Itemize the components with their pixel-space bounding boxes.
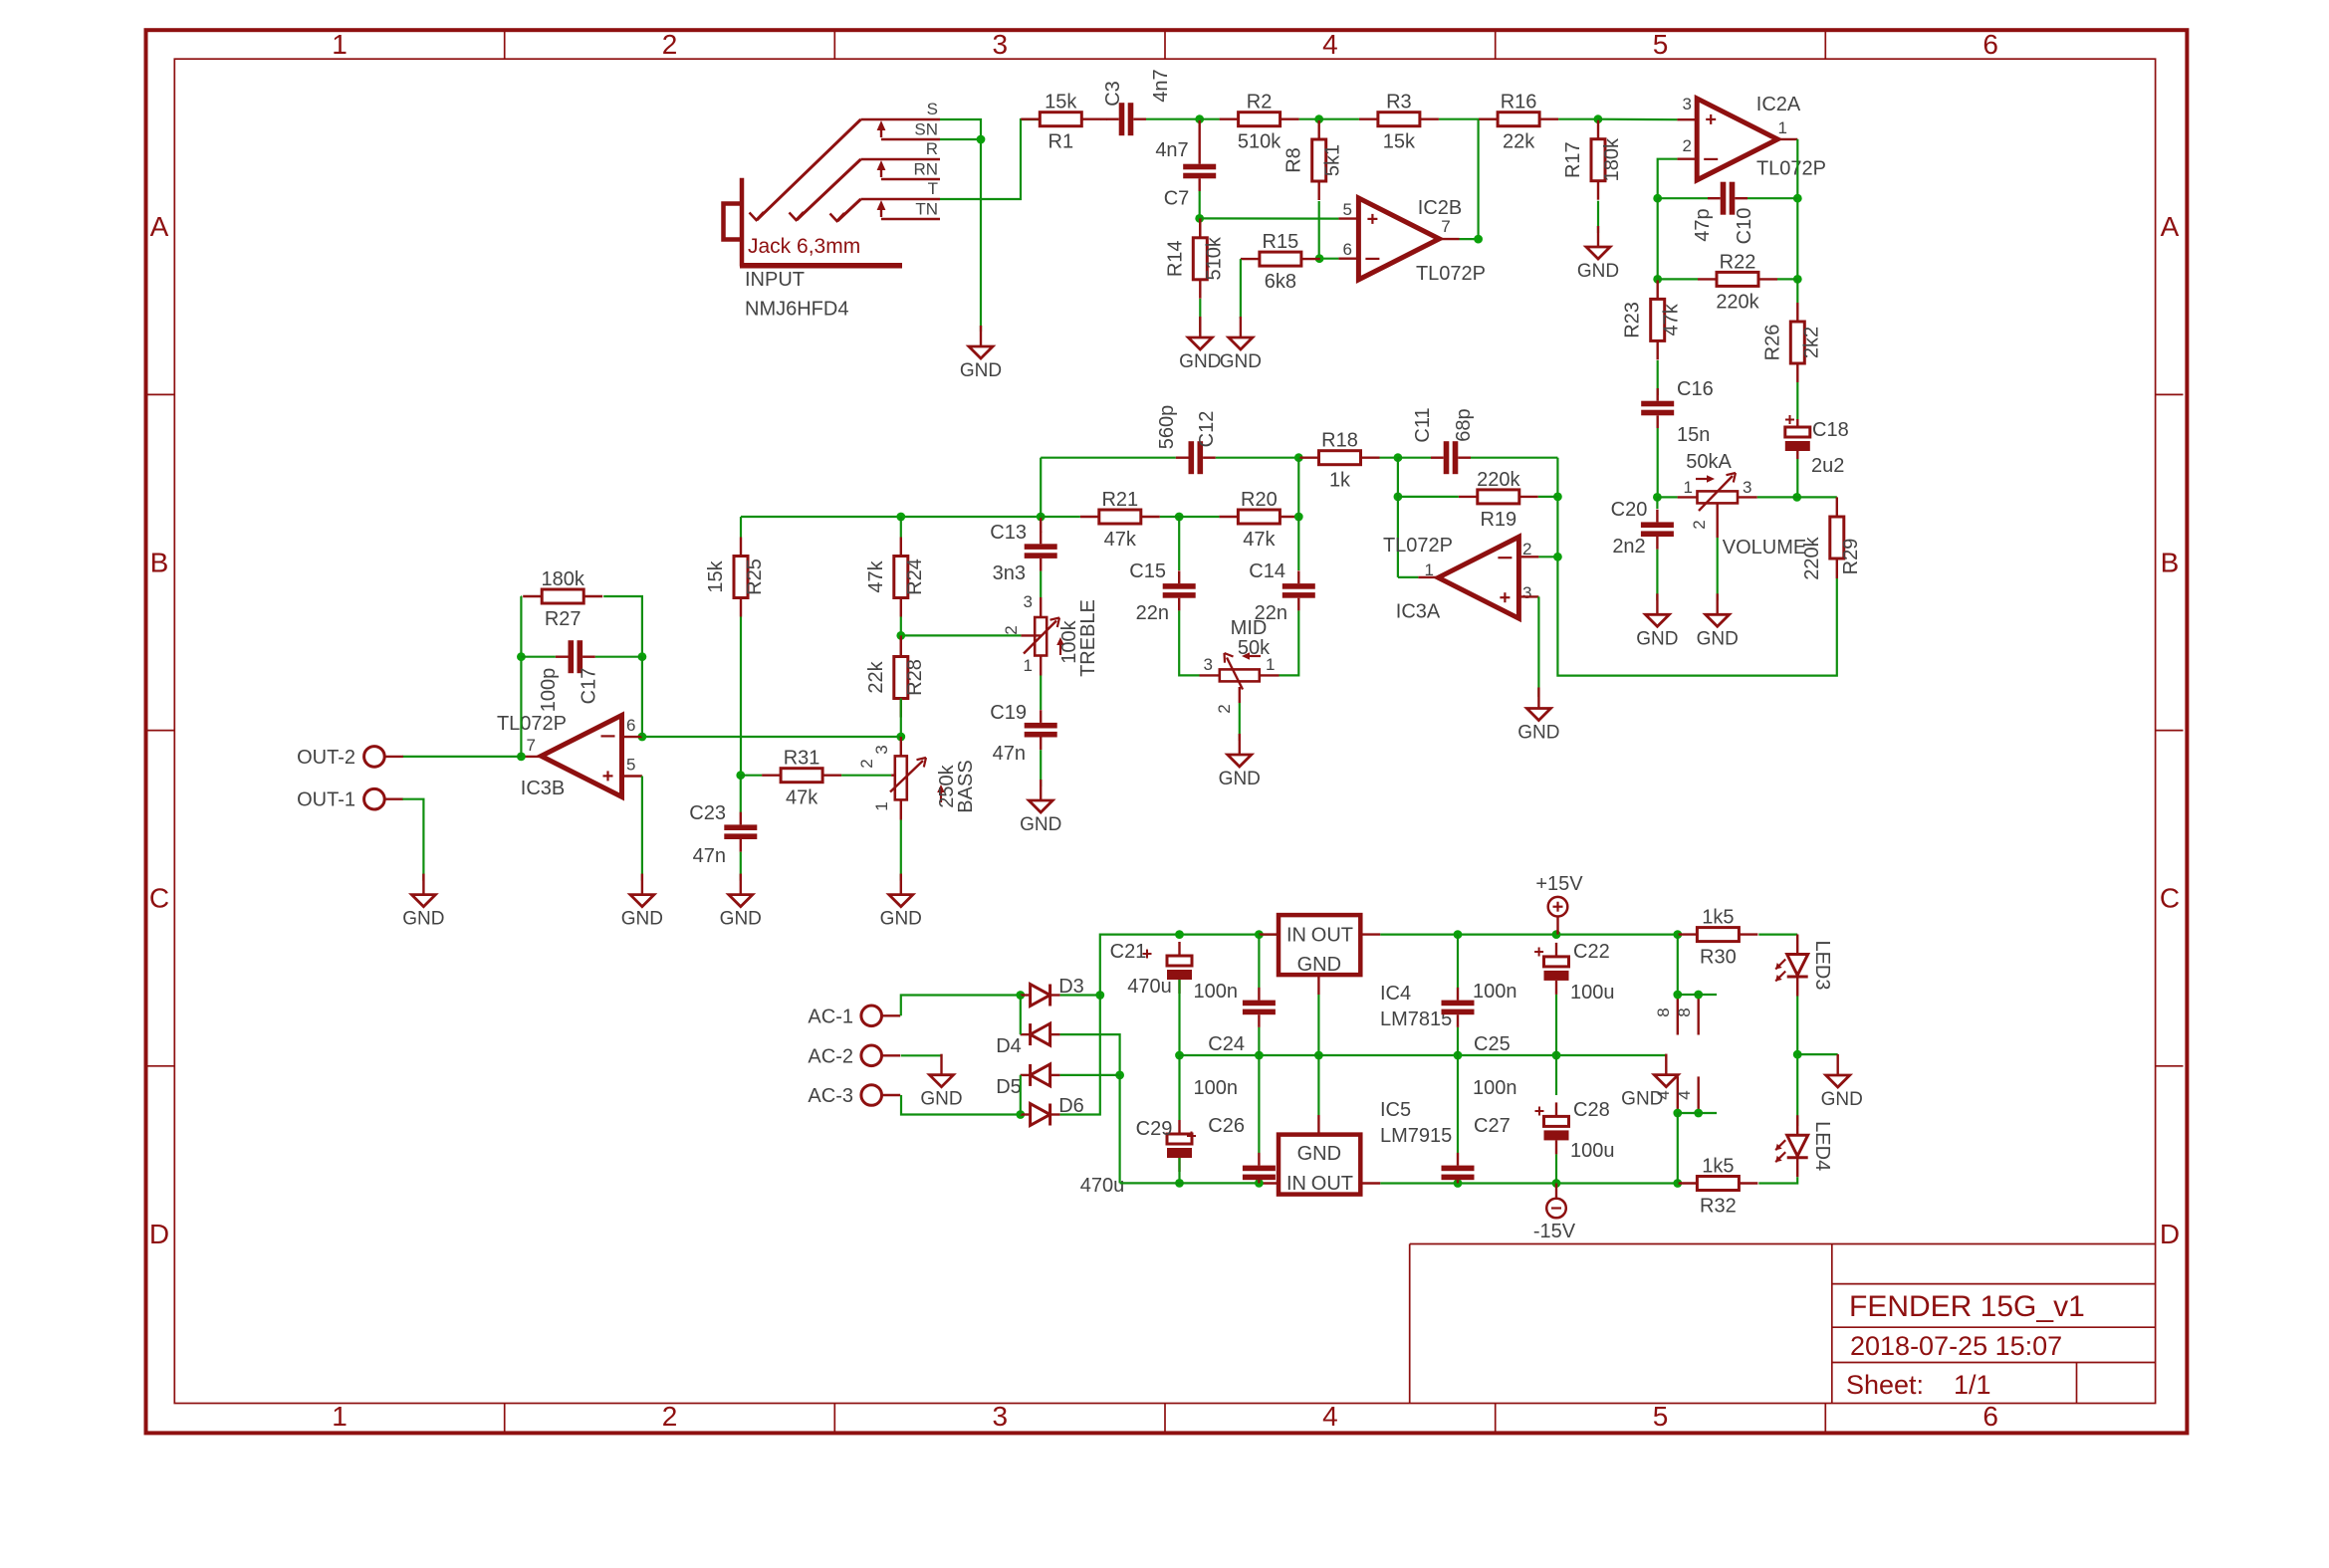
wire — [1200, 217, 1339, 219]
junction — [896, 733, 905, 742]
svg-text:C26: C26 — [1208, 1115, 1245, 1137]
svg-text:1k5: 1k5 — [1702, 1156, 1734, 1178]
junction — [1793, 275, 1802, 284]
ground — [621, 874, 663, 930]
junction — [1673, 1109, 1682, 1118]
wire — [1678, 994, 1717, 996]
svg-text:15k: 15k — [1045, 92, 1077, 113]
junction — [896, 631, 905, 640]
svg-text:2018-07-25 15:07: 2018-07-25 15:07 — [1850, 1331, 2062, 1361]
svg-text:47k: 47k — [1661, 303, 1683, 336]
wire — [1796, 997, 1798, 1127]
diode D3 — [1021, 976, 1084, 1007]
capacitor C3 — [1102, 69, 1172, 135]
voltage regulator IC4 LM7815 — [1259, 915, 1452, 1030]
svg-text:R18: R18 — [1321, 430, 1358, 452]
svg-text:MID: MID — [1231, 617, 1268, 639]
ground — [720, 874, 762, 930]
svg-text:C17: C17 — [579, 668, 600, 705]
svg-text:2: 2 — [1002, 625, 1021, 634]
wire — [1299, 118, 1319, 120]
wire — [1060, 1034, 1120, 1075]
svg-text:47k: 47k — [786, 787, 818, 809]
resistor R26 — [1761, 303, 1822, 382]
ground — [1577, 226, 1619, 282]
svg-text:IC3A: IC3A — [1396, 601, 1441, 623]
junction — [1315, 254, 1324, 263]
svg-text:R: R — [926, 139, 938, 158]
resistor R24 — [865, 538, 926, 617]
op-amp IC3A — [1383, 535, 1532, 623]
svg-text:TN: TN — [915, 200, 938, 219]
svg-text:R24: R24 — [904, 559, 926, 595]
svg-text:B: B — [150, 547, 169, 577]
svg-text:LM7815: LM7815 — [1380, 1008, 1452, 1030]
junction — [1474, 235, 1483, 244]
svg-text:IN: IN — [1286, 925, 1306, 947]
wire — [1398, 496, 1459, 498]
capacitor C28 — [1544, 1099, 1615, 1162]
wire — [1120, 1182, 1260, 1184]
svg-text:22k: 22k — [865, 660, 887, 693]
junction S/SN — [977, 135, 986, 144]
capacitor C22 — [1544, 941, 1615, 1004]
svg-text:R21: R21 — [1101, 489, 1138, 511]
resistor R16 — [1479, 92, 1558, 153]
wire — [1180, 1054, 1667, 1056]
junction — [1552, 930, 1561, 939]
svg-text:C27: C27 — [1474, 1115, 1511, 1137]
wire — [1199, 191, 1201, 218]
junction — [1653, 493, 1662, 502]
wire — [1178, 1158, 1180, 1183]
svg-text:3: 3 — [1204, 655, 1213, 674]
wire — [1319, 118, 1359, 120]
svg-text:R20: R20 — [1241, 489, 1278, 511]
svg-text:2: 2 — [1690, 520, 1709, 529]
svg-text:3: 3 — [1743, 478, 1751, 497]
capacitor C7 — [1183, 151, 1216, 191]
svg-text:4: 4 — [1675, 1090, 1694, 1099]
capacitor C26 — [1243, 1153, 1276, 1184]
resistor R15 — [1241, 231, 1320, 293]
jumper pins 4 — [1654, 1076, 1699, 1113]
voltage regulator IC5 LM7915 — [1259, 1099, 1452, 1195]
svg-text:1: 1 — [332, 1401, 348, 1432]
junction — [1694, 991, 1703, 1000]
svg-text:3: 3 — [872, 745, 891, 754]
junction — [517, 753, 526, 762]
svg-text:470u: 470u — [1080, 1175, 1125, 1197]
svg-text:TL072P: TL072P — [1383, 535, 1453, 557]
svg-text:180k: 180k — [1601, 137, 1623, 181]
junction — [1195, 114, 1204, 123]
resistor R3 — [1359, 92, 1439, 153]
wire — [1041, 457, 1176, 459]
wire — [1040, 458, 1042, 517]
svg-text:1k: 1k — [1329, 470, 1351, 492]
svg-text:C18: C18 — [1812, 419, 1849, 441]
junction — [1294, 453, 1303, 462]
wire — [1747, 197, 1797, 199]
svg-text:1: 1 — [332, 29, 348, 60]
capacitor C29 — [1080, 1118, 1192, 1197]
wire — [1240, 259, 1242, 319]
wire — [740, 617, 742, 776]
wire — [1658, 159, 1678, 199]
op-amp IC3B — [497, 713, 636, 799]
resistor R19 — [1459, 469, 1538, 531]
svg-text:R28: R28 — [904, 659, 926, 696]
wire — [900, 699, 902, 738]
svg-text:C16: C16 — [1677, 378, 1714, 400]
wire — [1796, 933, 1798, 935]
svg-text:D4: D4 — [996, 1035, 1022, 1057]
svg-text:LED3: LED3 — [1811, 940, 1833, 990]
ground — [1179, 317, 1221, 372]
wire — [1179, 610, 1199, 675]
svg-text:TL072P: TL072P — [1416, 263, 1486, 285]
svg-text:3: 3 — [1683, 95, 1692, 113]
diode D5 — [996, 1064, 1059, 1098]
wire — [940, 119, 1040, 199]
svg-text:4: 4 — [1322, 29, 1338, 60]
svg-text:2n2: 2n2 — [1612, 536, 1645, 558]
junction — [1454, 930, 1463, 939]
resistor R20 — [1219, 489, 1298, 551]
supply -15V — [1533, 1184, 1576, 1243]
svg-text:22n: 22n — [1136, 602, 1169, 624]
svg-text:C: C — [149, 883, 169, 914]
wire — [940, 119, 981, 332]
capacitor C27 — [1442, 1153, 1475, 1184]
wire — [1020, 996, 1022, 1035]
svg-text:C13: C13 — [990, 522, 1027, 544]
svg-text:100p: 100p — [538, 668, 560, 713]
svg-text:1: 1 — [872, 801, 891, 810]
junction — [1673, 1179, 1682, 1188]
junction — [1673, 930, 1682, 939]
svg-text:100n: 100n — [1473, 981, 1517, 1003]
wire — [1677, 935, 1679, 995]
junction — [1314, 1051, 1323, 1060]
svg-text:R27: R27 — [545, 608, 582, 630]
wire — [1457, 935, 1459, 988]
resistor R29 — [1801, 497, 1862, 579]
svg-text:IC3B: IC3B — [521, 778, 565, 799]
junction — [1553, 553, 1562, 561]
wire — [1717, 538, 1719, 600]
wire — [1557, 458, 1836, 676]
svg-text:D: D — [2160, 1219, 2180, 1249]
wire — [1657, 496, 1677, 498]
wire — [1657, 198, 1659, 279]
svg-text:R25: R25 — [744, 559, 766, 595]
svg-text:GND: GND — [1219, 769, 1261, 789]
junction — [1792, 493, 1801, 502]
svg-text:S: S — [927, 100, 938, 118]
diode D6 — [1021, 1095, 1084, 1126]
potentiometer TREBLE 100k — [1002, 592, 1099, 677]
wire — [1179, 516, 1219, 518]
frame labels — [149, 29, 2180, 1432]
svg-text:47n: 47n — [693, 845, 726, 867]
ground — [920, 1054, 962, 1110]
wire — [641, 657, 643, 737]
junction — [1552, 1179, 1561, 1188]
wire — [1538, 496, 1558, 498]
wire — [740, 776, 742, 812]
svg-text:7: 7 — [527, 736, 536, 755]
resistor R8 — [1283, 120, 1344, 200]
wire — [740, 517, 742, 538]
svg-text:7: 7 — [1441, 217, 1450, 236]
svg-text:47k: 47k — [1243, 529, 1276, 551]
junction — [638, 733, 647, 742]
junction — [1553, 493, 1562, 502]
wire — [841, 775, 891, 777]
junction — [1653, 275, 1662, 284]
resistor R27 — [523, 568, 602, 630]
resistor R32 — [1678, 1156, 1757, 1218]
svg-text:2: 2 — [1215, 704, 1234, 713]
wire — [1656, 497, 1658, 509]
svg-text:22k: 22k — [1503, 131, 1535, 153]
wire — [1040, 571, 1042, 597]
svg-text:R16: R16 — [1501, 92, 1537, 113]
potentiometer VOLUME 50kA — [1678, 451, 1807, 559]
wire — [1471, 457, 1557, 459]
svg-text:SN: SN — [914, 120, 938, 139]
resistor R28 — [865, 638, 926, 718]
resistor R22 — [1698, 251, 1777, 313]
svg-text:R17: R17 — [1562, 141, 1584, 178]
wire — [1439, 118, 1518, 120]
svg-text:220k: 220k — [1801, 536, 1823, 579]
wire — [402, 756, 521, 758]
svg-text:68p: 68p — [1453, 408, 1475, 441]
junction — [1454, 1179, 1463, 1188]
svg-text:4: 4 — [1654, 1090, 1673, 1099]
svg-text:GND: GND — [621, 909, 663, 930]
svg-text:A: A — [150, 211, 169, 242]
svg-text:8: 8 — [1675, 1008, 1694, 1016]
svg-text:AC-3: AC-3 — [808, 1085, 853, 1107]
svg-text:GND: GND — [1517, 723, 1559, 744]
svg-text:5: 5 — [626, 756, 635, 775]
svg-text:IC2B: IC2B — [1418, 197, 1462, 219]
svg-text:FENDER 15G_v1: FENDER 15G_v1 — [1849, 1290, 2085, 1323]
capacitor C16 — [1641, 388, 1674, 428]
capacitor C21 — [1110, 941, 1192, 998]
frame ticks — [148, 32, 2184, 1432]
junction — [1195, 214, 1204, 223]
wire — [901, 1095, 1021, 1115]
connector OUT-2 — [297, 747, 403, 769]
svg-text:C22: C22 — [1573, 941, 1610, 963]
svg-text:-15V: -15V — [1533, 1221, 1576, 1242]
junction — [1255, 1179, 1264, 1188]
svg-text:GND: GND — [1220, 351, 1262, 372]
wire — [1555, 995, 1557, 1055]
svg-text:15n: 15n — [1677, 424, 1710, 446]
wire — [1178, 980, 1180, 1055]
potentiometer BASS 250k — [857, 737, 977, 820]
wire — [1678, 1112, 1717, 1114]
wire — [900, 517, 902, 538]
svg-text:47p: 47p — [1692, 208, 1714, 241]
svg-text:VOLUME: VOLUME — [1723, 537, 1806, 559]
svg-text:470u: 470u — [1127, 976, 1172, 998]
svg-text:OUT-2: OUT-2 — [297, 747, 355, 769]
svg-text:TL072P: TL072P — [1756, 158, 1826, 180]
wire — [1317, 995, 1319, 1055]
wire — [1796, 139, 1798, 280]
wire — [1258, 1055, 1260, 1153]
wire — [1796, 459, 1798, 497]
capacitor C25 — [1442, 988, 1475, 1027]
svg-text:2: 2 — [857, 759, 876, 768]
wire — [1380, 933, 1678, 935]
wire — [901, 996, 1021, 1016]
junction — [1294, 513, 1303, 522]
svg-text:BASS: BASS — [955, 760, 977, 812]
junction — [1037, 513, 1046, 522]
resistor R31 — [762, 748, 841, 809]
ground — [1697, 593, 1739, 649]
junction — [736, 771, 745, 780]
wire — [1318, 201, 1320, 259]
svg-text:R1: R1 — [1048, 131, 1074, 153]
resistor R30 — [1678, 907, 1757, 969]
border frame outer — [146, 30, 2188, 1433]
wire — [1380, 1182, 1678, 1184]
svg-text:6: 6 — [1982, 1401, 1998, 1432]
wire — [1656, 550, 1658, 600]
wire — [520, 595, 523, 597]
svg-text:GND: GND — [1577, 261, 1619, 282]
capacitor C20 — [1641, 510, 1674, 550]
svg-text:C29: C29 — [1136, 1118, 1173, 1140]
svg-text:C12: C12 — [1196, 411, 1218, 448]
junction — [1394, 493, 1403, 502]
capacitor C17 — [538, 640, 600, 712]
svg-text:4n7: 4n7 — [1150, 69, 1172, 102]
svg-text:C24: C24 — [1208, 1033, 1245, 1055]
svg-text:220k: 220k — [1477, 469, 1520, 491]
svg-text:D5: D5 — [996, 1076, 1022, 1098]
svg-text:R23: R23 — [1622, 302, 1644, 338]
svg-text:R26: R26 — [1761, 325, 1783, 361]
junction — [1673, 991, 1682, 1000]
wire — [1200, 118, 1220, 120]
svg-text:5: 5 — [1653, 29, 1669, 60]
svg-text:R19: R19 — [1480, 509, 1516, 531]
wire — [1677, 1113, 1679, 1184]
svg-text:2u2: 2u2 — [1811, 455, 1844, 477]
wire — [1100, 935, 1279, 996]
svg-text:C7: C7 — [1164, 188, 1190, 210]
svg-text:50kA: 50kA — [1686, 451, 1732, 473]
svg-text:R14: R14 — [1164, 240, 1186, 277]
connector AC-3 — [808, 1085, 900, 1107]
junction — [1454, 1051, 1463, 1060]
ground — [1621, 1054, 1678, 1110]
junction — [1694, 1109, 1703, 1118]
svg-text:15k: 15k — [1383, 131, 1416, 153]
junction — [1314, 114, 1323, 123]
wire — [1060, 994, 1100, 996]
svg-text:5k1: 5k1 — [1322, 144, 1344, 176]
wire — [1317, 1055, 1319, 1115]
wire — [1398, 576, 1418, 578]
svg-text:R29: R29 — [1840, 539, 1862, 575]
wire — [1796, 279, 1798, 303]
jumper pins 8 — [1654, 995, 1699, 1035]
wire — [1319, 258, 1338, 260]
svg-text:3: 3 — [993, 29, 1009, 60]
wire — [741, 516, 1041, 518]
svg-text:RN: RN — [913, 160, 938, 179]
svg-text:100n: 100n — [1194, 1077, 1239, 1099]
wire — [1597, 201, 1599, 233]
capacitor C23 — [724, 812, 757, 852]
svg-text:B: B — [2161, 547, 2180, 577]
svg-text:GND: GND — [1297, 1143, 1341, 1165]
svg-text:3: 3 — [1522, 583, 1531, 602]
connector AC-1 — [808, 1006, 900, 1027]
junction — [1016, 991, 1025, 1000]
svg-text:LED4: LED4 — [1811, 1121, 1833, 1171]
wire — [1537, 596, 1539, 697]
svg-text:C23: C23 — [689, 802, 726, 824]
wire — [901, 634, 1022, 636]
svg-text:+15V: +15V — [1535, 873, 1583, 895]
svg-text:C11: C11 — [1412, 407, 1434, 442]
wire — [603, 596, 642, 657]
svg-text:3: 3 — [1024, 592, 1033, 611]
svg-text:OUT: OUT — [1311, 1173, 1353, 1195]
resistor R23 — [1622, 280, 1683, 359]
junction — [896, 513, 905, 522]
svg-text:Sheet:: Sheet: — [1846, 1370, 1924, 1400]
wire — [1658, 278, 1698, 280]
svg-text:T: T — [928, 179, 938, 198]
svg-text:A: A — [2161, 211, 2180, 242]
svg-text:3: 3 — [993, 1401, 1009, 1432]
ground — [880, 874, 922, 930]
svg-text:6k8: 6k8 — [1265, 271, 1296, 293]
border frame inner — [174, 59, 2155, 1403]
svg-text:GND: GND — [1297, 954, 1341, 976]
svg-text:NMJ6HFD4: NMJ6HFD4 — [745, 299, 848, 321]
svg-text:R31: R31 — [784, 748, 820, 770]
wire — [1657, 360, 1659, 395]
svg-text:OUT: OUT — [1311, 925, 1353, 947]
svg-text:GND: GND — [402, 909, 444, 930]
LED LED3 — [1775, 935, 1833, 997]
wire — [1020, 1075, 1022, 1115]
junction — [517, 652, 526, 661]
wire — [1555, 1154, 1557, 1183]
junction — [1653, 194, 1662, 203]
op-amp IC2A — [1683, 94, 1827, 180]
resistor R18 — [1300, 430, 1380, 492]
junction — [1552, 1051, 1561, 1060]
wire — [1041, 516, 1080, 518]
svg-text:C3: C3 — [1102, 81, 1124, 107]
svg-text:R30: R30 — [1700, 947, 1737, 969]
